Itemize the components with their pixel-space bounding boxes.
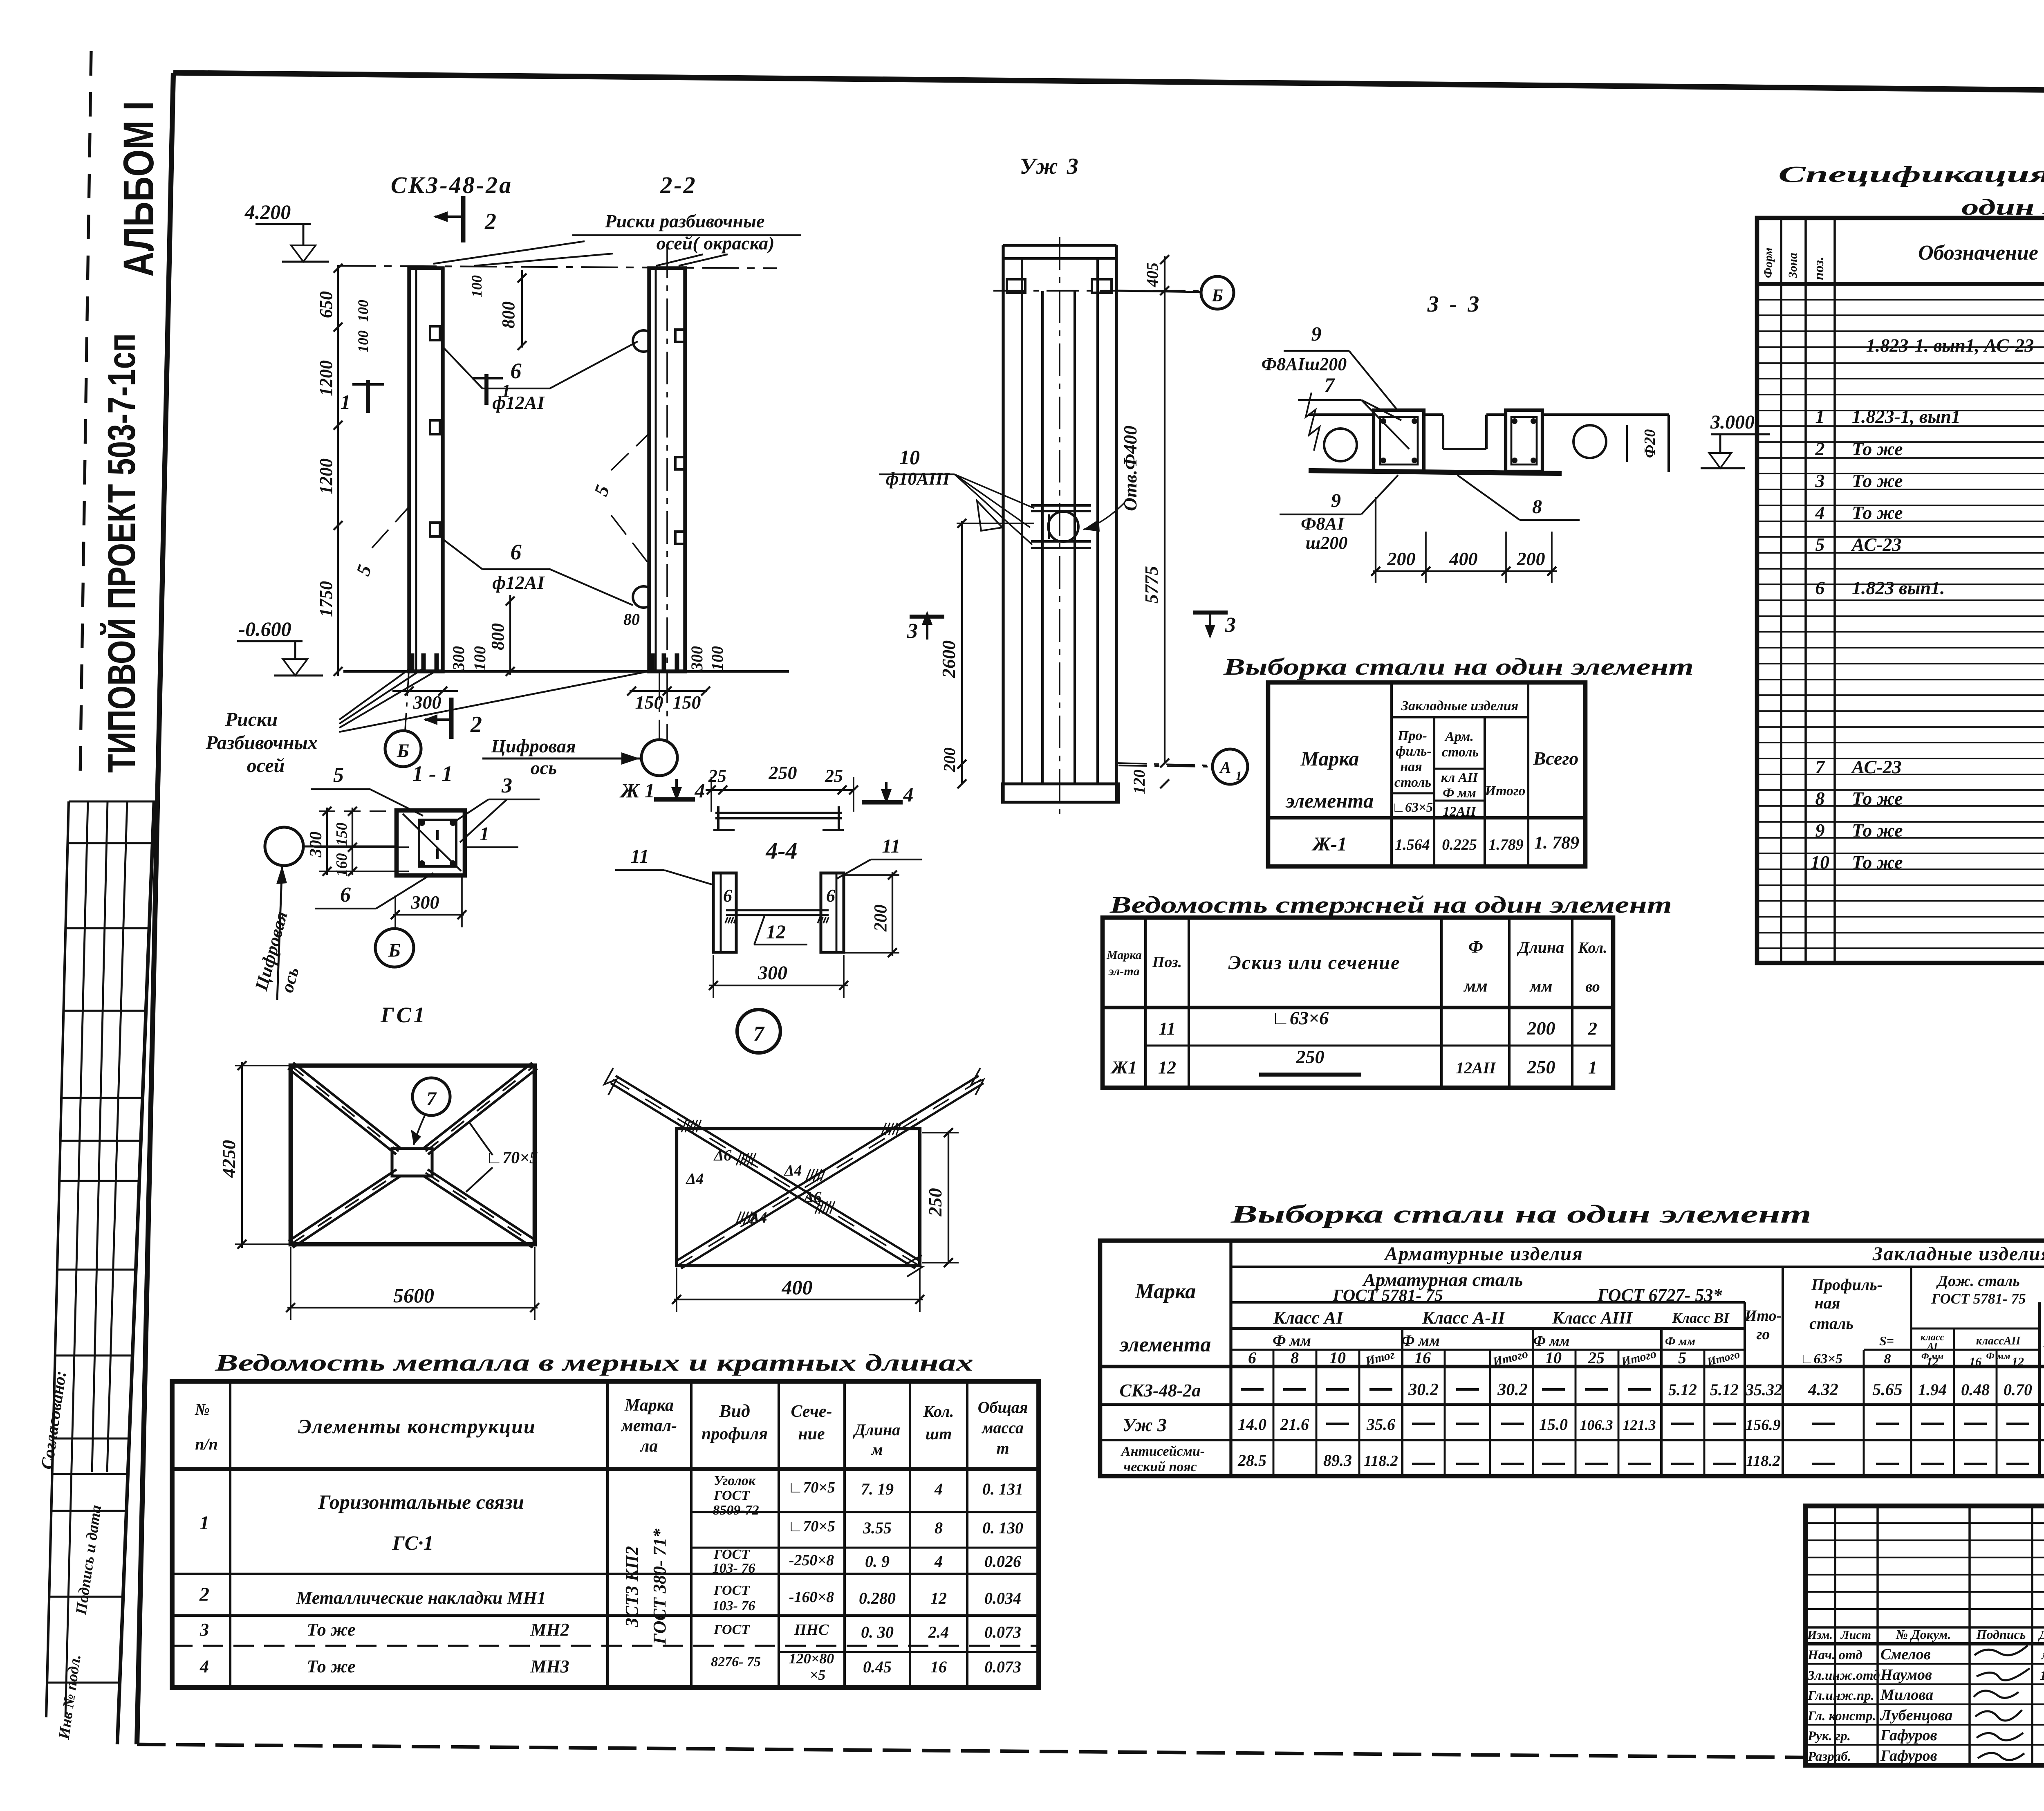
- svg-text:12: 12: [1158, 1057, 1176, 1077]
- svg-text:1: 1: [199, 1512, 209, 1534]
- svg-text:Уголок: Уголок: [714, 1473, 756, 1488]
- svg-text:эл-та: эл-та: [1108, 965, 1139, 978]
- 3-3 right slab with circle: [1542, 413, 1669, 416]
- svg-text:156.9: 156.9: [1746, 1416, 1781, 1434]
- svg-text:Ито-: Ито-: [1744, 1307, 1782, 1324]
- svg-text:Нач. отд: Нач. отд: [1807, 1648, 1862, 1663]
- svg-text:3: 3: [1815, 470, 1825, 491]
- svg-text:4: 4: [903, 783, 914, 806]
- svg-text:Поз.: Поз.: [1152, 954, 1182, 971]
- axis dash-dot: [993, 290, 1202, 292]
- svg-text:Наумов: Наумов: [1880, 1666, 1932, 1683]
- svg-text:6: 6: [340, 883, 351, 907]
- axis circle B below 1-1: [375, 929, 414, 967]
- svg-text:150: 150: [333, 823, 350, 846]
- svg-text:3: 3: [501, 774, 512, 797]
- svg-text:ПНС: ПНС: [794, 1621, 829, 1638]
- svg-text:Ф мм: Ф мм: [1665, 1335, 1695, 1348]
- svg-text:11: 11: [1159, 1019, 1176, 1039]
- svg-text:№ Докум.: № Докум.: [1896, 1627, 1951, 1642]
- GS1 diagonals: [288, 1068, 396, 1154]
- svg-text:∟70×5: ∟70×5: [486, 1149, 538, 1167]
- svg-text:8: 8: [1291, 1349, 1299, 1367]
- svg-text:Δ4: Δ4: [784, 1162, 802, 1179]
- svg-text:250: 250: [1296, 1046, 1325, 1067]
- svg-text:АС-23: АС-23: [1851, 756, 1902, 777]
- svg-text:8: 8: [1815, 788, 1825, 809]
- svg-text:1: 1: [1588, 1057, 1597, 1077]
- big vyborka table frame: [1100, 1241, 2044, 1476]
- svg-text:1.823-1. вып1, АС-23: 1.823-1. вып1, АС-23: [1866, 335, 2034, 356]
- svg-text:3: 3: [1225, 613, 1236, 637]
- dim 800 top: [521, 270, 523, 348]
- svg-text:12: 12: [1926, 1355, 1939, 1369]
- svg-text:ГОСТ: ГОСТ: [713, 1488, 750, 1503]
- svg-text:Выборка стали на один элемент: Выборка стали на один элемент: [1223, 653, 1694, 680]
- svg-text:Закладные изделия: Закладные изделия: [1401, 698, 1518, 714]
- axis circle B top right: [1116, 291, 1201, 292]
- X node diagonals: [611, 1083, 915, 1268]
- svg-text:ГОСТ: ГОСТ: [713, 1622, 750, 1637]
- svg-text:1 - 1: 1 - 1: [412, 761, 453, 786]
- svg-text:СКЗ-48-2а: СКЗ-48-2а: [1120, 1380, 1201, 1400]
- svg-text:Отв.Ф400: Отв.Ф400: [1120, 426, 1141, 511]
- svg-text:5: 5: [333, 763, 344, 787]
- svg-text:Итого: Итого: [1485, 783, 1526, 799]
- svg-text:Элементы конструкции: Элементы конструкции: [298, 1415, 536, 1438]
- svg-text:9: 9: [1331, 490, 1341, 512]
- svg-text:ная: ная: [1400, 759, 1422, 774]
- svg-text:Подпись: Подпись: [1976, 1627, 2026, 1642]
- svg-text:классАII: классАII: [1976, 1335, 2021, 1347]
- svg-text:6: 6: [1815, 577, 1825, 598]
- svg-text:2: 2: [470, 712, 482, 737]
- svg-text:Форм: Форм: [1762, 247, 1775, 278]
- svg-text:0.45: 0.45: [863, 1658, 892, 1676]
- svg-text:400: 400: [1449, 548, 1478, 569]
- svg-text:5600: 5600: [393, 1284, 434, 1307]
- svg-text:4: 4: [695, 779, 705, 802]
- 3-3 right cage box: [1506, 410, 1542, 471]
- svg-text:ГОСТ 6727- 53*: ГОСТ 6727- 53*: [1597, 1285, 1723, 1305]
- svg-text:-160×8: -160×8: [789, 1589, 834, 1606]
- left column outline: [409, 268, 443, 671]
- svg-text:80: 80: [623, 610, 640, 628]
- svg-text:п/п: п/п: [195, 1435, 218, 1453]
- svg-text:Спецификация арматурных: Спецификация арматурных изделий на: [1778, 162, 2044, 187]
- svg-text:кл АII: кл АII: [1441, 770, 1478, 785]
- svg-text:Гафуров: Гафуров: [1880, 1747, 1937, 1764]
- svg-text:6: 6: [511, 540, 522, 564]
- vedomost metalla frame: [172, 1381, 1039, 1688]
- svg-text:ная: ная: [1815, 1294, 1840, 1312]
- left sidebar stamp column: [80, 51, 91, 777]
- svg-text:10: 10: [1811, 852, 1829, 873]
- svg-text:250: 250: [769, 762, 797, 783]
- svg-text:ф12АI: ф12АI: [492, 392, 545, 413]
- svg-text:12: 12: [2012, 1355, 2024, 1369]
- svg-text:89.3: 89.3: [1323, 1451, 1352, 1470]
- svg-text:1: 1: [1235, 768, 1242, 783]
- svg-text:Ф8АI: Ф8АI: [1301, 514, 1345, 534]
- svg-text:Арматурные изделия: Арматурные изделия: [1383, 1243, 1583, 1265]
- svg-text:250: 250: [1527, 1057, 1555, 1077]
- svg-text:ш200: ш200: [1306, 533, 1348, 553]
- svg-text:Длина: Длина: [853, 1421, 900, 1439]
- svg-text:200: 200: [1527, 1018, 1555, 1039]
- svg-text:106.3: 106.3: [1580, 1417, 1613, 1433]
- svg-text:10: 10: [1545, 1349, 1562, 1367]
- svg-text:1: 1: [502, 381, 511, 401]
- svg-text:10: 10: [899, 446, 920, 469]
- svg-text:8: 8: [1532, 496, 1542, 518]
- svg-text:ось: ось: [531, 757, 557, 778]
- svg-text:Δ6: Δ6: [803, 1189, 822, 1206]
- svg-text:То же: То же: [307, 1656, 355, 1676]
- section mark 2 (top): [461, 196, 466, 242]
- svg-text:СКЗ-48-2а: СКЗ-48-2а: [391, 172, 513, 198]
- 1-1 left circle + line: [265, 827, 303, 866]
- svg-text:0.70: 0.70: [2004, 1380, 2032, 1399]
- svg-text:Горизонтальные связи: Горизонтальные связи: [318, 1490, 524, 1513]
- vedomost sterzhney table: [1103, 918, 1613, 1088]
- svg-text:Длина: Длина: [1517, 938, 1564, 956]
- svg-text:16: 16: [1969, 1355, 1981, 1369]
- svg-text:Кол.: Кол.: [1578, 939, 1607, 956]
- svg-text:103- 76: 103- 76: [713, 1561, 755, 1576]
- svg-text:5.12: 5.12: [1710, 1380, 1739, 1399]
- svg-text:столь: столь: [1442, 745, 1479, 760]
- svg-text:0.280: 0.280: [859, 1589, 896, 1607]
- dim 5775: [1164, 256, 1165, 763]
- svg-text:9: 9: [1311, 322, 1322, 345]
- svg-text:Гл.инж.пр.: Гл.инж.пр.: [1807, 1688, 1874, 1703]
- svg-text:∟70×5: ∟70×5: [788, 1479, 835, 1496]
- svg-text:1200: 1200: [316, 360, 336, 396]
- svg-text:Дата: Дата: [2038, 1628, 2044, 1642]
- svg-text:8: 8: [935, 1519, 943, 1537]
- svg-text:Марка: Марка: [624, 1396, 674, 1415]
- svg-text:ГС1: ГС1: [380, 1003, 427, 1027]
- svg-text:Дож. сталь: Дож. сталь: [1936, 1272, 2020, 1290]
- svg-text:ГС·1: ГС·1: [392, 1531, 433, 1554]
- bottom base: [1003, 783, 1116, 785]
- Uzh3 outer outline: [1003, 244, 1116, 247]
- svg-text:филь-: филь-: [1396, 744, 1432, 759]
- svg-text:200: 200: [1387, 548, 1416, 569]
- connecting rod: [726, 909, 829, 911]
- 3-3 bottom dims 200 400 200: [1373, 570, 1557, 572]
- svg-text:-250×8: -250×8: [789, 1552, 834, 1569]
- svg-text:ГОСТ: ГОСТ: [713, 1547, 750, 1562]
- svg-text:Профиль-: Профиль-: [1811, 1275, 1883, 1294]
- svg-text:2600: 2600: [938, 640, 959, 678]
- svg-text:Гафуров: Гафуров: [1880, 1727, 1937, 1744]
- svg-text:Ф мм: Ф мм: [1443, 786, 1476, 801]
- base risk marks left column: [410, 653, 415, 671]
- svg-text:Про-: Про-: [1397, 728, 1427, 743]
- svg-text:Б: Б: [397, 740, 410, 762]
- svg-text:Марка: Марка: [1300, 747, 1359, 770]
- svg-text:35.6: 35.6: [1366, 1415, 1395, 1434]
- svg-text:Лубенцова: Лубенцова: [1880, 1707, 1952, 1724]
- svg-text:6: 6: [511, 359, 522, 383]
- 1-1 dims left: [319, 810, 409, 812]
- svg-text:А: А: [1219, 758, 1231, 776]
- svg-text:ГОСТ 5781- 75: ГОСТ 5781- 75: [1931, 1290, 2026, 1307]
- svg-text:То же: То же: [1852, 438, 1903, 459]
- svg-text:0.073: 0.073: [984, 1623, 1021, 1641]
- svg-text:Выборка стали на один эл: Выборка стали на один элемент: [1230, 1201, 1811, 1228]
- svg-text:0.48: 0.48: [1961, 1380, 1990, 1399]
- svg-text:Ф мм: Ф мм: [1401, 1332, 1440, 1349]
- svg-text:25: 25: [1588, 1349, 1605, 1367]
- svg-text:25: 25: [825, 766, 843, 786]
- svg-text:Лист: Лист: [1840, 1628, 1871, 1642]
- svg-text:3.55: 3.55: [863, 1519, 892, 1537]
- circle 7: [737, 1010, 780, 1053]
- svg-text:Ж1: Ж1: [1110, 1057, 1137, 1077]
- svg-text:1: 1: [341, 390, 351, 413]
- svg-text:Ф мм: Ф мм: [1273, 1332, 1311, 1349]
- svg-text:ф10АIII: ф10АIII: [886, 469, 950, 489]
- svg-text:Антисейсми-: Антисейсми-: [1121, 1444, 1205, 1459]
- svg-text:11: 11: [882, 835, 900, 857]
- svg-text:АI: АI: [1926, 1341, 1938, 1352]
- svg-text:То же: То же: [1852, 852, 1903, 873]
- svg-text:8: 8: [1884, 1351, 1891, 1367]
- svg-text:Риски: Риски: [225, 709, 278, 730]
- svg-text:300: 300: [449, 646, 468, 671]
- svg-text:4-4: 4-4: [765, 837, 797, 864]
- svg-text:800: 800: [488, 623, 508, 650]
- svg-text:Δ4: Δ4: [686, 1170, 704, 1187]
- svg-text:12АII: 12АII: [1456, 1059, 1496, 1077]
- svg-text:1.789: 1.789: [1488, 836, 1524, 853]
- svg-text:Марка: Марка: [1135, 1280, 1196, 1303]
- svg-text:1.823-1, вып1: 1.823-1, вып1: [1852, 406, 1961, 427]
- svg-text:15.0: 15.0: [1539, 1415, 1568, 1434]
- svg-text:∟63×5: ∟63×5: [1392, 800, 1433, 815]
- svg-text:Всего: Всего: [1533, 748, 1579, 769]
- svg-text:Цифровая: Цифровая: [491, 736, 576, 756]
- svg-text:ческий пояс: ческий пояс: [1123, 1459, 1197, 1474]
- svg-text:4: 4: [199, 1656, 209, 1676]
- svg-text:осей: осей: [247, 755, 285, 776]
- svg-text:АС-23: АС-23: [1851, 534, 1902, 555]
- svg-text:сталь: сталь: [1809, 1314, 1853, 1333]
- GS1 dim 5600: [287, 1307, 538, 1308]
- svg-text:16: 16: [1414, 1349, 1431, 1367]
- X node detail rect: [677, 1129, 920, 1266]
- dim 150 150 below right column: [630, 690, 707, 692]
- svg-text:во: во: [1585, 978, 1600, 995]
- svg-text:650: 650: [316, 291, 336, 318]
- svg-text:4: 4: [934, 1480, 943, 1498]
- svg-text:1979: 1979: [2040, 1668, 2044, 1683]
- svg-text:4250: 4250: [218, 1140, 239, 1178]
- svg-text:Б: Б: [1211, 285, 1223, 305]
- svg-text:5775: 5775: [1141, 566, 1162, 604]
- svg-text:То же: То же: [307, 1620, 355, 1640]
- base risk marks right column: [650, 653, 655, 671]
- svg-text:1.823 вып1.: 1.823 вып1.: [1852, 577, 1945, 598]
- svg-text:ГОСТ 5781- 75: ГОСТ 5781- 75: [1332, 1286, 1443, 1305]
- hole circle + hatch bands: [1031, 504, 1091, 507]
- sheet frame: [173, 73, 2044, 95]
- svg-text:120×80: 120×80: [789, 1650, 834, 1667]
- dim 300 below left column: [392, 690, 458, 692]
- svg-text:Ф20: Ф20: [1641, 429, 1659, 458]
- svg-text:То же: То же: [1852, 502, 1903, 523]
- svg-text:поз.: поз.: [1811, 257, 1827, 280]
- svg-text:7: 7: [1815, 756, 1826, 777]
- svg-text:Закладные изделия: Закладные изделия: [1872, 1243, 2044, 1265]
- svg-text:Кол.: Кол.: [923, 1402, 954, 1421]
- svg-text:103- 76: 103- 76: [713, 1598, 755, 1614]
- svg-text:7: 7: [1325, 373, 1336, 396]
- svg-text:Б: Б: [388, 940, 401, 961]
- svg-text:Металлические накладки МН1: Металлические накладки МН1: [296, 1588, 546, 1608]
- 4-4 I-beams: [713, 873, 736, 952]
- svg-text:Уж 3: Уж 3: [1123, 1414, 1167, 1435]
- svg-text:4.32: 4.32: [1808, 1380, 1838, 1399]
- svg-text:Сече-: Сече-: [791, 1402, 832, 1421]
- svg-text:0. 30: 0. 30: [861, 1623, 894, 1641]
- svg-text:405: 405: [1143, 263, 1161, 287]
- small vyborka table: [1268, 682, 1585, 866]
- svg-text:300: 300: [688, 646, 706, 671]
- svg-text:Рук. гр.: Рук. гр.: [1807, 1729, 1851, 1744]
- svg-text:×5: ×5: [810, 1667, 826, 1683]
- svg-text:профиля: профиля: [702, 1425, 768, 1443]
- svg-text:m: m: [996, 1439, 1009, 1457]
- svg-text:Разбивочных: Разбивочных: [205, 732, 318, 754]
- svg-text:0.225: 0.225: [1442, 836, 1477, 853]
- top notches: [1007, 279, 1025, 293]
- svg-text:6: 6: [1248, 1349, 1256, 1367]
- svg-text:Зона: Зона: [1786, 253, 1800, 278]
- svg-text:Класс АIII: Класс АIII: [1552, 1309, 1633, 1328]
- svg-text:0.073: 0.073: [984, 1658, 1021, 1676]
- axis circle B (left column): [385, 731, 421, 767]
- svg-text:Ф мм: Ф мм: [1986, 1351, 2010, 1362]
- svg-text:масса: масса: [981, 1418, 1024, 1437]
- svg-text:12: 12: [766, 921, 786, 943]
- section marks 3: [910, 615, 944, 619]
- svg-text:∟63×5: ∟63×5: [1800, 1351, 1842, 1367]
- svg-text:200: 200: [1517, 548, 1545, 569]
- svg-text:Арм.: Арм.: [1444, 729, 1474, 744]
- svg-text:1. 789: 1. 789: [1534, 833, 1579, 853]
- svg-text:Общая: Общая: [978, 1398, 1028, 1416]
- X node dim 250: [948, 1131, 949, 1263]
- svg-text:16: 16: [930, 1658, 947, 1676]
- svg-text:100: 100: [708, 646, 726, 671]
- section mark 1 mid-left: [366, 380, 370, 413]
- svg-text:4: 4: [1815, 502, 1825, 523]
- axis circle A1 bottom right: [1118, 765, 1213, 767]
- svg-text:2: 2: [1815, 438, 1825, 459]
- svg-text:8276- 75: 8276- 75: [711, 1654, 761, 1670]
- svg-text:ние: ние: [798, 1425, 825, 1443]
- 3-3 left cage box: [1374, 410, 1424, 471]
- svg-text:го: го: [1756, 1326, 1770, 1343]
- svg-text:5.65: 5.65: [1872, 1380, 1903, 1399]
- svg-text:250: 250: [925, 1188, 946, 1217]
- svg-text:2: 2: [199, 1584, 209, 1605]
- svg-text:121.3: 121.3: [1623, 1417, 1656, 1433]
- svg-text:МН3: МН3: [530, 1656, 569, 1676]
- svg-text:То же: То же: [1852, 820, 1903, 841]
- svg-text:Изм.: Изм.: [1807, 1628, 1833, 1642]
- GS1 circle 7: [412, 1078, 450, 1115]
- svg-text:∟70×5: ∟70×5: [788, 1518, 835, 1535]
- svg-text:1: 1: [1815, 406, 1825, 427]
- svg-text:шт: шт: [926, 1425, 952, 1443]
- top axis dash-dot line: [339, 266, 777, 268]
- svg-text:5.12: 5.12: [1668, 1380, 1697, 1399]
- svg-text:элемента: элемента: [1119, 1333, 1211, 1356]
- svg-text:118.2: 118.2: [1364, 1452, 1398, 1470]
- svg-text:Ведомость стержней на один: Ведомость стержней на один элемент: [1109, 891, 1672, 918]
- svg-text:Обозначение: Обозначение: [1918, 241, 2038, 265]
- Zh1 top-hat profile: [715, 812, 842, 814]
- svg-text:11: 11: [630, 846, 649, 867]
- svg-text:6: 6: [723, 886, 732, 906]
- svg-text:май: май: [2041, 1647, 2044, 1662]
- svg-text:8509-72: 8509-72: [713, 1503, 759, 1518]
- section mark 2 (bottom): [449, 698, 454, 739]
- svg-text:200: 200: [940, 747, 959, 772]
- svg-text:6: 6: [826, 886, 835, 906]
- GS1 dim 4250: [241, 1062, 243, 1248]
- svg-text:120: 120: [1130, 770, 1148, 794]
- svg-text:Эскиз или сечение: Эскиз или сечение: [1228, 952, 1401, 974]
- X node dim 400: [674, 1299, 923, 1300]
- svg-text:Ж 1: Ж 1: [619, 779, 654, 802]
- leader fan to column tops: [433, 241, 585, 264]
- svg-text:2: 2: [484, 209, 496, 234]
- svg-text:0.026: 0.026: [984, 1552, 1021, 1571]
- svg-text:118.2: 118.2: [1746, 1452, 1780, 1470]
- svg-text:14.0: 14.0: [1238, 1415, 1266, 1434]
- svg-text:7. 19: 7. 19: [861, 1480, 894, 1498]
- right column (2-2) outline: [649, 268, 685, 671]
- svg-text:200: 200: [870, 904, 890, 932]
- svg-text:Класс АI: Класс АI: [1273, 1308, 1344, 1328]
- svg-text:35.32: 35.32: [1745, 1380, 1782, 1399]
- svg-text:7: 7: [426, 1088, 437, 1110]
- svg-text:1: 1: [480, 823, 489, 845]
- dim 2600 left: [961, 521, 963, 784]
- svg-text:4: 4: [934, 1552, 943, 1571]
- svg-text:S=: S=: [1879, 1333, 1894, 1348]
- svg-text:2.4: 2.4: [928, 1623, 949, 1641]
- svg-text:400: 400: [782, 1276, 813, 1299]
- svg-text:3 - 3: 3 - 3: [1427, 292, 1482, 317]
- svg-text:Гл. констр.: Гл. констр.: [1807, 1709, 1876, 1723]
- loop marks on 2-2 column: [633, 330, 649, 352]
- svg-text:ЗСТ3 КП2: ЗСТ3 КП2: [622, 1546, 642, 1627]
- svg-text:800: 800: [498, 301, 518, 328]
- section mark 4 right of Zh1: [862, 800, 903, 805]
- ground line: [343, 670, 789, 673]
- svg-text:ГОСТ 380- 71*: ГОСТ 380- 71*: [650, 1528, 670, 1645]
- svg-text:100: 100: [355, 330, 371, 352]
- dim 200 right: [844, 874, 899, 876]
- svg-text:0. 9: 0. 9: [865, 1552, 890, 1571]
